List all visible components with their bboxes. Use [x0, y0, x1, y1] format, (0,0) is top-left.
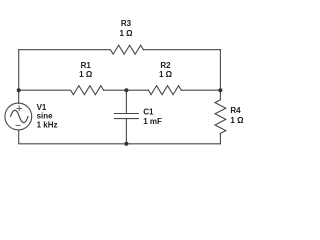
- wire top-right segment: [143, 49, 220, 51]
- svg-text:V1: V1: [37, 103, 47, 112]
- node junction right (R2/R4): [218, 88, 222, 92]
- wire capacitor top lead: [125, 90, 127, 113]
- svg-text:C1: C1: [143, 108, 154, 117]
- wire right rail top: [219, 50, 221, 100]
- svg-text:1 Ω: 1 Ω: [159, 70, 173, 79]
- resistor R3: [110, 45, 143, 54]
- wire bottom rail: [19, 130, 221, 144]
- wire middle center segment: [104, 89, 149, 91]
- svg-text:R4: R4: [230, 106, 241, 115]
- resistor R1: [71, 86, 104, 95]
- wire right rail bottom: [219, 133, 221, 143]
- wire top-left segment: [19, 49, 111, 51]
- wire middle right segment: [181, 89, 220, 91]
- svg-text:1 Ω: 1 Ω: [79, 70, 93, 79]
- wire middle left segment: [19, 89, 71, 91]
- svg-text:1 Ω: 1 Ω: [119, 29, 133, 38]
- node junction C1 bottom: [124, 142, 128, 146]
- resistor R4: [215, 100, 226, 134]
- svg-text:1 mF: 1 mF: [143, 117, 162, 126]
- voltage source V1 sine symbol: [11, 110, 28, 122]
- svg-text:R2: R2: [160, 61, 171, 70]
- svg-text:sine: sine: [37, 112, 54, 121]
- wire capacitor bottom lead: [125, 119, 127, 144]
- svg-text:R3: R3: [121, 19, 132, 28]
- svg-text:1 kHz: 1 kHz: [37, 120, 58, 129]
- node junction C1 top: [124, 88, 128, 92]
- svg-text:R1: R1: [81, 61, 92, 70]
- resistor R2: [148, 86, 181, 95]
- capacitor C1: [115, 114, 139, 119]
- svg-text:1 Ω: 1 Ω: [230, 116, 244, 125]
- voltage source V1 plus sign: [17, 106, 22, 111]
- voltage source V1 minus sign: [16, 124, 20, 126]
- node junction left (source to R1): [17, 88, 21, 92]
- voltage source V1 circle: [5, 103, 32, 130]
- wire left rail (top corner to source): [18, 50, 20, 104]
